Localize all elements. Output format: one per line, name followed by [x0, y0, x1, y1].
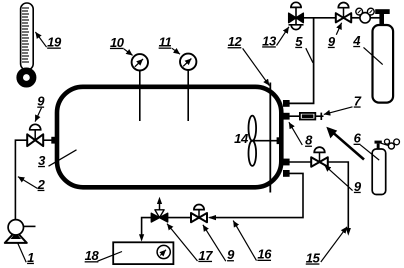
leader 1 [18, 243, 26, 262]
leader 16 [233, 221, 256, 261]
gauge 11 [180, 54, 196, 70]
filter line 7/8 [286, 115, 324, 117]
cylinder 6 handle [375, 141, 382, 144]
box 18 [113, 242, 173, 264]
leader 6 [360, 145, 379, 160]
thermometer ticks [22, 8, 29, 62]
line 16 [210, 173, 304, 217]
leader 3 [49, 150, 77, 166]
leader 12 [243, 48, 270, 85]
svg-text:7: 7 [354, 93, 362, 108]
valve 9 right [311, 147, 328, 167]
leader 9 left [35, 108, 41, 122]
leader 8 [289, 122, 302, 145]
svg-text:4: 4 [352, 33, 361, 48]
svg-text:15: 15 [306, 250, 321, 265]
svg-text:16: 16 [257, 247, 272, 262]
leader 9 bottom [203, 225, 226, 261]
partition 12 [269, 83, 271, 193]
cylinder 6 regulator [381, 139, 400, 149]
leader 17 [167, 224, 198, 261]
svg-text:18: 18 [85, 248, 100, 263]
cylinder 4 [373, 25, 394, 103]
valve 9 top [336, 2, 351, 22]
valve 13 [289, 2, 304, 29]
regulator gauges on cylinder 4 [356, 8, 374, 23]
valve 17 three-way [151, 197, 167, 222]
drain line 15 [328, 162, 348, 229]
svg-text:8: 8 [305, 133, 313, 148]
svg-text:9: 9 [354, 179, 362, 194]
svg-text:6: 6 [354, 131, 362, 146]
leader 2 [18, 177, 37, 189]
svg-text:14: 14 [234, 131, 249, 146]
svg-text:17: 17 [198, 248, 213, 263]
gauge 10 [132, 54, 148, 70]
leader 13 [277, 27, 289, 46]
svg-text:9: 9 [227, 247, 235, 262]
leader 18 [98, 252, 123, 262]
svg-text:13: 13 [262, 33, 277, 48]
leader 19 [35, 32, 46, 47]
leader 9 right [325, 165, 353, 190]
leader 7 [324, 107, 353, 115]
pipe 2 [15, 140, 27, 220]
svg-text:9: 9 [328, 34, 336, 49]
svg-text:9: 9 [37, 94, 45, 109]
cylinder 6 [372, 149, 386, 195]
cylinder 4 valve handle [375, 9, 390, 14]
leader 10 [124, 49, 133, 56]
filter 8 [300, 113, 315, 120]
leader 5 [306, 48, 313, 63]
thermometer bulb [20, 71, 33, 84]
line into box 18 [142, 218, 152, 235]
line 5 [286, 18, 314, 104]
valve 9 left [27, 124, 58, 146]
box 18 gauge [157, 245, 170, 258]
gauge 10 stem [139, 70, 141, 121]
svg-text:3: 3 [38, 153, 46, 168]
orifice tick 7 [320, 113, 322, 120]
svg-text:19: 19 [47, 35, 62, 50]
svg-text:1: 1 [27, 250, 34, 265]
fan 14 [249, 116, 257, 141]
thermometer stem 19 [21, 3, 34, 70]
leader 4 [364, 47, 383, 64]
svg-text:12: 12 [228, 34, 243, 49]
top pipe [303, 17, 336, 19]
leader 9 top [336, 23, 341, 35]
valve 9 bottom [168, 205, 207, 223]
pump 1 [5, 220, 36, 243]
valve 9 right line [286, 161, 311, 163]
tank 3 [57, 87, 281, 188]
flow arrow from cylinder 6 [326, 127, 364, 160]
svg-text:10: 10 [110, 35, 125, 50]
gauge 11 stem [187, 70, 189, 121]
leader 15 [321, 227, 347, 262]
fan shaft [252, 140, 281, 142]
svg-text:5: 5 [295, 34, 303, 49]
svg-text:11: 11 [159, 35, 172, 50]
leader 11 [172, 48, 180, 54]
svg-text:2: 2 [37, 177, 46, 192]
